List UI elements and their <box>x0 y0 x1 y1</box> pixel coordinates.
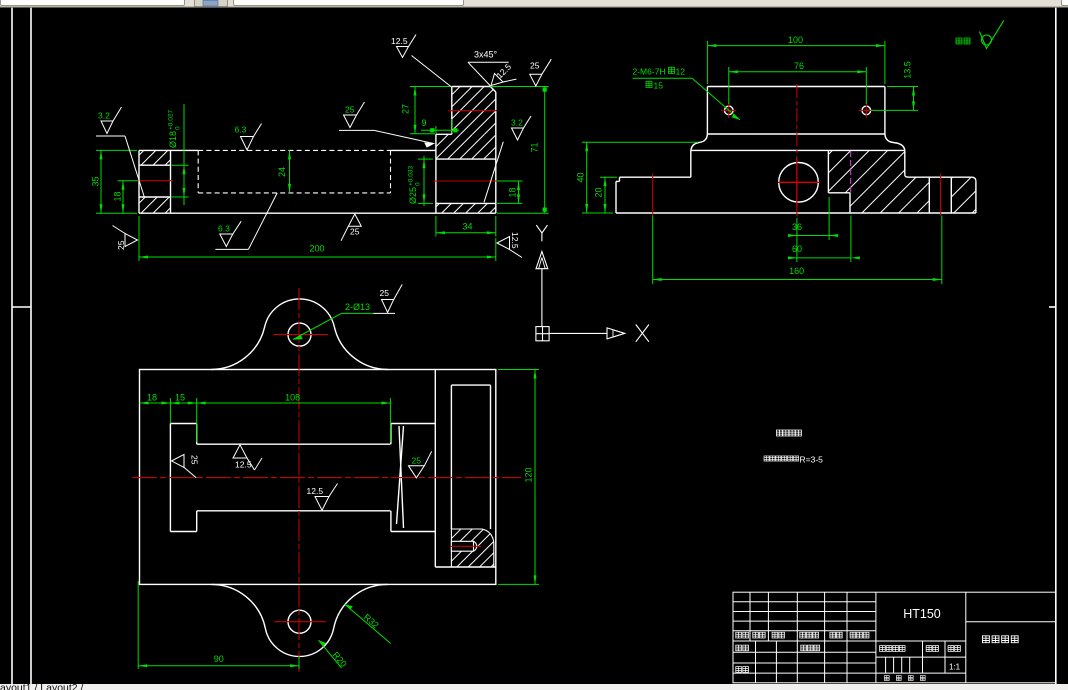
dim 27 <box>410 87 451 134</box>
svg-text:9: 9 <box>421 118 426 128</box>
magenta line <box>850 151 852 193</box>
chamfer note 3x45 and rotated 12.5 <box>468 62 516 95</box>
svg-text:Ø25: Ø25 <box>408 187 418 204</box>
2-dia13 note <box>293 313 373 339</box>
roughness 12.5 bottom-right rotated <box>497 237 522 258</box>
left table rows <box>733 601 876 603</box>
svg-text:2-Ø13: 2-Ø13 <box>345 302 370 312</box>
roughness 25 top right <box>530 59 552 86</box>
svg-text:12.5: 12.5 <box>235 460 252 470</box>
outline <box>616 87 976 214</box>
base top edge <box>691 149 905 151</box>
dim 36 <box>789 197 836 262</box>
roughness 12.5 upper slot <box>233 445 262 470</box>
red centerlines <box>137 111 499 181</box>
dim 120 <box>498 370 539 585</box>
svg-text:1:1: 1:1 <box>949 663 961 672</box>
roughness 12.5 upper leader <box>397 35 452 88</box>
dim 13.5 <box>871 87 918 111</box>
svg-text:25: 25 <box>345 105 355 115</box>
svg-text:ayout1 / Layout2 /: ayout1 / Layout2 / <box>0 682 84 690</box>
R32 leader <box>345 604 391 643</box>
svg-text:3.2: 3.2 <box>511 118 523 128</box>
cone X <box>399 426 404 528</box>
middle small cells <box>922 641 924 673</box>
left table cols bottom <box>755 641 757 683</box>
svg-text:36: 36 <box>792 222 802 232</box>
svg-text:3x45°: 3x45° <box>474 50 498 60</box>
svg-text:12.5: 12.5 <box>307 486 324 496</box>
dim 34 <box>436 216 496 237</box>
svg-text:R=3-5: R=3-5 <box>800 455 824 465</box>
roughness 25 slot left rotated <box>172 454 197 478</box>
svg-text:15: 15 <box>175 393 185 403</box>
dim 60 <box>789 216 851 263</box>
part outline <box>139 87 496 214</box>
red centerlines <box>132 288 521 672</box>
roughness 3.2 right mid <box>484 116 531 202</box>
stage mark row <box>880 646 886 652</box>
svg-text:34: 34 <box>462 222 472 232</box>
svg-text:60: 60 <box>792 244 802 254</box>
svg-text:25: 25 <box>190 455 200 465</box>
roughness 25 bottom-left rotated <box>113 226 138 247</box>
svg-text:12.5: 12.5 <box>510 232 520 249</box>
roughness 25 mid with leader <box>339 102 434 147</box>
right cell split <box>966 621 1056 623</box>
svg-text:25: 25 <box>530 61 540 71</box>
svg-text:13.5: 13.5 <box>903 61 913 79</box>
dim 9 <box>421 119 459 134</box>
svg-text:27: 27 <box>401 104 411 114</box>
roughness 6.3 bottom leader <box>215 193 277 250</box>
svg-text:18: 18 <box>147 393 157 403</box>
dim 71 <box>411 87 549 214</box>
svg-text:40: 40 <box>576 172 586 182</box>
big hole circle <box>779 163 819 203</box>
dim 200 <box>139 216 496 261</box>
svg-text:24: 24 <box>277 167 287 177</box>
roughness 12.5 lower slot <box>315 484 338 511</box>
inner right block <box>434 370 436 568</box>
dim 40 <box>582 142 698 213</box>
svg-text:18: 18 <box>508 187 518 197</box>
hatch areas <box>828 150 929 213</box>
svg-text:76: 76 <box>794 61 804 71</box>
svg-text:HT150: HT150 <box>903 607 941 621</box>
left table cols top <box>749 592 751 641</box>
dim 160 <box>653 216 942 285</box>
top block <box>707 86 885 88</box>
bottom ear <box>211 584 387 656</box>
hidden slot dashed <box>198 150 390 193</box>
roughness 25 at cone <box>409 451 432 478</box>
svg-text:0: 0 <box>415 182 422 186</box>
svg-text:160: 160 <box>789 266 804 276</box>
roughness 25 bottom mid <box>341 214 361 241</box>
hatch areas <box>139 150 171 165</box>
svg-text:+0.027: +0.027 <box>168 110 175 130</box>
part name <box>982 636 989 643</box>
top ear <box>211 299 388 370</box>
svg-text:25: 25 <box>380 288 390 298</box>
svg-text:18: 18 <box>113 191 123 201</box>
dim dia18 <box>172 104 189 205</box>
svg-text:120: 120 <box>524 467 534 482</box>
bottom strip marks <box>884 676 889 681</box>
svg-text:0: 0 <box>175 126 182 130</box>
svg-text:6.3: 6.3 <box>218 224 230 234</box>
right boss <box>452 86 491 88</box>
svg-text:200: 200 <box>309 244 324 254</box>
dim 24 slot <box>289 150 291 193</box>
svg-text:108: 108 <box>285 393 300 403</box>
flanges <box>620 176 691 178</box>
svg-text:25: 25 <box>116 240 126 250</box>
base plate <box>139 149 198 151</box>
hatch blob + M6 slot detail <box>451 529 493 567</box>
outline <box>140 299 496 656</box>
header labels row (proxy glyphs) <box>736 632 1018 680</box>
dim dia25 <box>418 156 433 206</box>
svg-text:90: 90 <box>214 654 224 664</box>
roughness 25 at 2-dia13 <box>373 284 402 313</box>
svg-text:6.3: 6.3 <box>235 125 247 135</box>
dim 100 <box>707 41 885 84</box>
dim 20 <box>600 177 617 213</box>
svg-text:25: 25 <box>412 456 422 466</box>
section step <box>827 150 829 192</box>
dim 35 <box>96 150 137 213</box>
M6 holes <box>725 106 734 115</box>
third row <box>736 667 742 673</box>
dim 18 left <box>118 181 138 214</box>
red centerlines <box>653 84 941 217</box>
left boss <box>170 150 172 213</box>
svg-text:71: 71 <box>530 142 540 152</box>
svg-text:12.5: 12.5 <box>391 36 408 46</box>
slot <box>169 424 171 532</box>
dim 76 <box>729 67 867 104</box>
svg-text:25: 25 <box>350 227 360 237</box>
svg-text:2-M6-7H: 2-M6-7H <box>633 67 666 77</box>
svg-text:12: 12 <box>676 67 686 77</box>
svg-text:20: 20 <box>594 187 604 197</box>
roughness 6.3 at slot <box>241 124 262 151</box>
svg-text:100: 100 <box>788 35 803 45</box>
svg-text:15: 15 <box>654 80 664 90</box>
R20 leader <box>319 640 342 668</box>
roughness 3.2 top-left <box>96 107 144 197</box>
bolt hole edges right flange <box>928 177 930 213</box>
left fillet to base <box>691 134 708 151</box>
svg-text:Ø18: Ø18 <box>168 131 178 148</box>
svg-text:35: 35 <box>91 176 101 186</box>
dim 18 right <box>497 181 523 203</box>
svg-text:+0.033: +0.033 <box>408 166 415 186</box>
dim 90 <box>138 581 299 669</box>
M6 note <box>633 78 740 120</box>
dims 18 15 108 <box>140 398 391 442</box>
design row <box>736 645 742 651</box>
svg-text:3.2: 3.2 <box>98 111 110 121</box>
